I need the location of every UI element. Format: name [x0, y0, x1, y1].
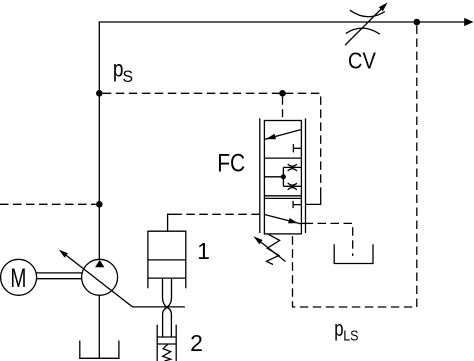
throttle valve CV upper arc	[350, 10, 385, 17]
FC middle lower orifice arcs	[288, 183, 297, 190]
CV adjustment arrow shaft	[345, 8, 383, 46]
node: junction dot downstream of CV	[414, 19, 421, 26]
piston rod upper bullet	[163, 278, 172, 307]
node: dot on orifice box	[281, 174, 286, 179]
pump circle P	[82, 259, 118, 295]
FC top position blocked port T	[293, 144, 301, 152]
wire: dashed stub from branch dot to FC valve top	[282, 97, 284, 121]
wire: pump suction line down to tank	[98, 295, 100, 358]
FC spring adjustment arrow shaft	[257, 239, 286, 261]
svg-text:2: 2	[190, 330, 203, 356]
FC middle upper orifice arcs	[288, 164, 297, 171]
wire: dashed line to left edge	[0, 203, 96, 205]
wire: dashed p_S pilot line to FC valve top and right	[103, 93, 321, 195]
CV adjustment arrowhead	[379, 3, 388, 12]
motor circle M	[1, 259, 37, 295]
wire: pump supply line up-left and across top	[99, 22, 465, 259]
FC top position flow arrowhead	[266, 134, 276, 139]
cylinder 1 body	[148, 231, 186, 288]
node: pilot branch dot above FC valve	[279, 90, 286, 97]
FC bottom position flow path	[265, 215, 301, 224]
wire: dashed drain line to tank	[313, 223, 353, 256]
wire: dashed pilot line FC to stroking cylinder 1	[174, 213, 260, 215]
wire: solid corner into FC right port	[306, 196, 321, 205]
valve FC divider middle/bottom (double line)	[264, 196, 301, 199]
valve FC right side rail	[305, 118, 307, 233]
svg-text:M: M	[10, 263, 26, 293]
valve FC left side rail	[259, 118, 261, 233]
tank symbol (drain)	[334, 244, 373, 263]
svg-text:FC: FC	[217, 150, 245, 178]
cylinder 1 piston	[148, 259, 186, 261]
FC middle position feed line	[264, 176, 283, 178]
spring of cylinder 2	[163, 344, 171, 361]
pump adjustment arrow shaft	[64, 254, 133, 307]
FC spring adjustment arrowhead	[254, 236, 263, 244]
svg-text:1: 1	[197, 238, 210, 264]
node: p_S junction dot on supply line	[96, 90, 103, 97]
linkage horizontal bar	[133, 306, 185, 308]
FC middle position orifice box	[283, 167, 301, 186]
FC bottom position blocked port T	[293, 201, 301, 208]
pump outlet triangle	[95, 260, 104, 267]
arrowhead at right end of supply line	[464, 18, 473, 26]
node: junction dot for left dashed tap	[96, 201, 103, 208]
wire: FC drain port solid stub	[301, 222, 313, 224]
svg-text:S: S	[123, 68, 134, 86]
valve FC main body box	[264, 121, 301, 234]
cylinder 2 body	[157, 325, 176, 361]
FC top position flow path	[265, 130, 301, 140]
svg-text:CV: CV	[348, 48, 376, 74]
pump adjustment arrowhead	[59, 250, 68, 258]
FC bottom position flow arrowhead	[288, 218, 298, 223]
svg-text:LS: LS	[343, 327, 358, 344]
piston rod lower bullet	[163, 308, 172, 338]
tank symbol (suction)	[80, 341, 119, 359]
motor-pump shaft lines	[36, 273, 82, 279]
wire: dashed LS feedback line (down, left, up to FC bottom)	[293, 26, 417, 308]
cylinder 1 bottom cap	[148, 277, 186, 279]
wire: solid corner into cylinder 1	[168, 214, 174, 231]
valve FC divider top/middle	[264, 157, 301, 159]
spring of FC compensator	[267, 234, 280, 265]
throttle valve CV lower arc	[346, 28, 380, 34]
cylinder 2 piston	[157, 337, 176, 344]
